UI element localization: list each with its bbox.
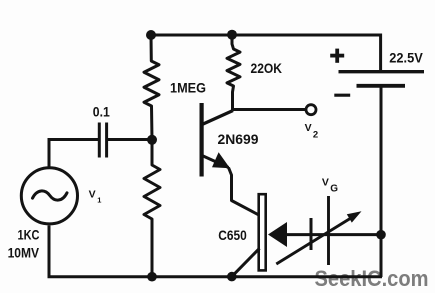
- svg-text:1: 1: [97, 196, 101, 205]
- svg-text:1KC: 1KC: [18, 226, 40, 242]
- wire source top lead to capacitor: [49, 140, 98, 167]
- svg-text:22.5V: 22.5V: [389, 50, 423, 65]
- wire VG lead: [327, 196, 330, 265]
- terminal V2 (open circle): [306, 105, 316, 115]
- wire right rail top (to battery +): [379, 34, 382, 72]
- svg-text:2N699: 2N699: [218, 132, 259, 147]
- svg-text:1MEG: 1MEG: [170, 80, 206, 95]
- svg-text:V: V: [305, 122, 312, 134]
- svg-text:C650: C650: [218, 227, 247, 243]
- wire C650 arrow to right rail: [285, 233, 381, 236]
- resistor R1 1MEG: [144, 35, 159, 140]
- svg-text:V: V: [322, 177, 329, 189]
- capacitor C650 long bar plate: [259, 194, 266, 270]
- label VG: [322, 177, 338, 195]
- svg-text:G: G: [330, 184, 338, 195]
- source V1 sine symbol: [33, 191, 68, 200]
- node bottom junction at C650: [227, 272, 237, 282]
- node top-left junction: [146, 30, 156, 40]
- wire bottom rail and source bottom lead: [49, 225, 382, 276]
- wire collector to V2 terminal: [233, 108, 306, 111]
- node bottom junction at R2: [147, 272, 157, 282]
- label − (battery negative): [334, 94, 350, 97]
- svg-text:0.1: 0.1: [93, 104, 110, 119]
- capacitor C1 0.1 plates: [99, 123, 106, 158]
- wire right rail bottom: [380, 86, 383, 277]
- resistor R2 (lower bias resistor): [144, 140, 160, 277]
- node base junction: [147, 135, 157, 145]
- capacitor C650 arrow plate (left-pointing triangle): [268, 222, 287, 247]
- label + (battery positive): [330, 49, 344, 63]
- svg-text:10MV: 10MV: [8, 244, 40, 260]
- wire diagonal from C650 to bottom rail: [232, 248, 260, 276]
- node right rail junction: [376, 230, 386, 240]
- node top junction at 220K: [227, 30, 237, 40]
- wire capacitor to base junction: [108, 138, 152, 141]
- battery B1 bottom plate (−): [357, 84, 406, 88]
- capacitor C650 fixed plate: [310, 218, 313, 250]
- svg-text:22OK: 22OK: [251, 61, 283, 76]
- transistor Q1 2N699: [202, 103, 259, 215]
- svg-text:2: 2: [313, 129, 318, 140]
- label V2: [305, 122, 319, 140]
- wire top rail: [151, 34, 381, 37]
- source V1 sine generator circle: [21, 168, 77, 224]
- svg-text:SeekIC.com: SeekIC.com: [315, 266, 429, 291]
- label V1: [89, 188, 102, 204]
- resistor R3 220K: [227, 35, 240, 110]
- svg-text:V: V: [89, 188, 96, 200]
- variable adjustment arrow: [276, 211, 361, 264]
- battery B1 top plate (+): [339, 70, 425, 73]
